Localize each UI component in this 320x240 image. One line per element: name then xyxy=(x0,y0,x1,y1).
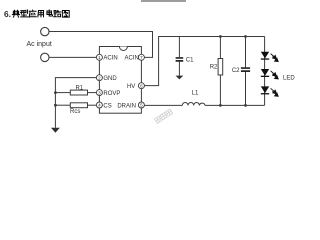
svg-text:ACIN: ACIN xyxy=(103,55,117,61)
svg-text:L1: L1 xyxy=(192,91,199,97)
svg-text:C1: C1 xyxy=(186,57,194,63)
svg-text:5: 5 xyxy=(140,103,143,108)
svg-text:ROVP: ROVP xyxy=(103,91,120,97)
svg-text:ACIN: ACIN xyxy=(124,55,138,61)
svg-text:LED: LED xyxy=(283,75,295,81)
svg-text:2: 2 xyxy=(98,75,101,80)
svg-text:Ac input: Ac input xyxy=(27,41,52,48)
svg-text:DRAIN: DRAIN xyxy=(117,103,136,109)
svg-text:3: 3 xyxy=(98,90,101,95)
svg-text:GND: GND xyxy=(103,76,117,82)
svg-text:C2: C2 xyxy=(232,68,240,74)
svg-text:R2: R2 xyxy=(210,65,218,71)
svg-text:R1: R1 xyxy=(75,85,83,91)
svg-text:7: 7 xyxy=(140,55,143,60)
svg-text:6.: 6. xyxy=(4,9,11,19)
svg-text:4: 4 xyxy=(98,103,101,108)
svg-text:6: 6 xyxy=(140,83,143,88)
svg-text:Rcs: Rcs xyxy=(70,109,80,115)
svg-text:HV: HV xyxy=(127,84,135,90)
svg-text:1: 1 xyxy=(98,55,101,60)
svg-text:CS: CS xyxy=(103,103,111,109)
